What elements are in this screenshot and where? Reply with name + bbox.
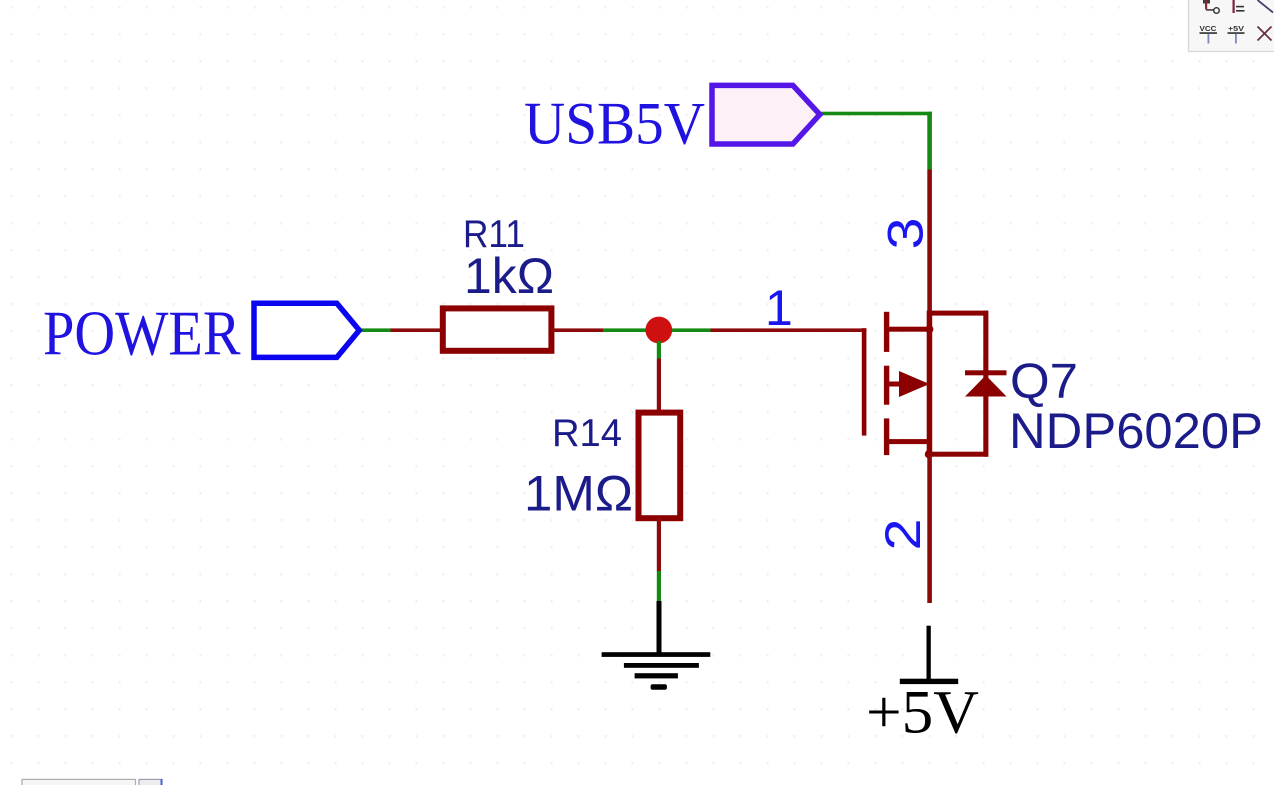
wire R14 to ground [657,518,661,602]
body diode of Q7 [965,311,1007,457]
status bar button [139,779,163,785]
net port POWER [254,303,359,357]
ground [602,601,711,690]
icon pin [1203,0,1219,13]
power symbol +5V [900,626,958,684]
icon net port [1233,0,1245,13]
wire junction to R14 [657,341,661,415]
svg-text:USB5V: USB5V [524,91,705,157]
svg-text:1MΩ: 1MΩ [524,466,633,522]
status bar input box [22,779,136,785]
wire R11 to junction [551,328,659,332]
wire junction to Q7 gate [659,328,867,332]
svg-text:POWER: POWER [43,298,241,369]
icon VCC power [1200,24,1218,44]
resistor R14 [639,413,681,519]
pin number 3 [878,218,934,250]
svg-text:Q7: Q7 [1010,354,1078,408]
svg-text:2: 2 [875,519,931,551]
svg-text:R14: R14 [552,412,622,455]
junction node [645,317,672,344]
svg-text:+5V: +5V [1228,24,1244,33]
icon no-connect [1258,27,1272,41]
icon +5V power [1228,24,1245,44]
transistor Q7 [862,311,988,459]
svg-text:+5V: +5V [866,680,979,747]
svg-text:VCC: VCC [1200,24,1218,33]
svg-text:NDP6020P: NDP6020P [1009,403,1263,459]
toolbar palette [1189,0,1274,52]
wire POWER port to R11 [358,328,444,332]
wire Q7 source to +5V [927,455,932,603]
net port USB5V [712,85,820,144]
wire USB5V port to Q7 drain [819,112,932,315]
pin number 2 [875,519,931,551]
svg-text:3: 3 [878,218,934,250]
icon line tool [1258,0,1274,13]
svg-text:1kΩ: 1kΩ [464,248,554,304]
svg-text:1: 1 [765,280,793,336]
resistor R11 [443,308,552,350]
